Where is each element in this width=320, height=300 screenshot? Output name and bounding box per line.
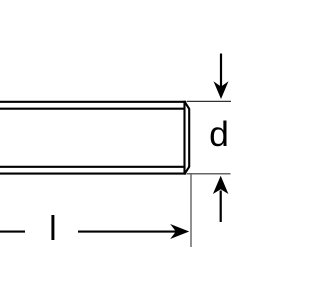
end face vertical line (188, 109, 190, 167)
extension line vertical (l) (190, 174, 192, 247)
bottom chamfer (185, 167, 189, 174)
dimension line l left segment (0, 231, 25, 233)
arrow right head (l) (170, 224, 189, 239)
stud outer top line (thread crest) (0, 101, 186, 103)
arrow down head (d) (214, 81, 229, 99)
extension line bottom (d) (187, 173, 231, 175)
extension line top (d) (187, 100, 231, 102)
chamfer edge vertical line (183, 101, 185, 175)
dimension line l right segment (78, 231, 177, 233)
arrow up head (d) (213, 176, 229, 194)
stud top root line (0, 108, 185, 110)
stud outer bottom line (0, 173, 186, 175)
stud bottom root line (0, 166, 185, 168)
svg-text:l: l (49, 210, 57, 248)
top chamfer (185, 102, 189, 109)
svg-text:d: d (209, 114, 229, 154)
arrow up shaft (d) (220, 191, 222, 223)
arrow down shaft (d) (220, 54, 222, 88)
